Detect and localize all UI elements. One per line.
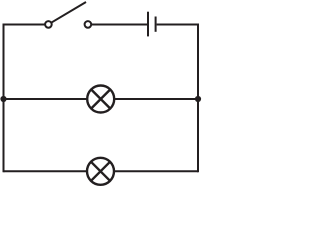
- battery B1: [148, 12, 156, 37]
- wire bottom left: [4, 170, 88, 172]
- wire battery to top-right corner: [157, 24, 198, 26]
- lamp L1: [87, 86, 114, 113]
- wire right vertical: [197, 24, 199, 173]
- switch contact right: [85, 21, 92, 28]
- wire bottom right: [114, 170, 198, 172]
- wire middle right: [114, 98, 198, 100]
- wire top-left segment: [4, 24, 46, 26]
- node right junction: [195, 96, 201, 102]
- node left junction: [0, 96, 6, 102]
- switch S1: [45, 2, 91, 28]
- wire switch to battery: [91, 24, 147, 26]
- wire left vertical: [3, 24, 5, 173]
- switch blade: [51, 2, 86, 23]
- battery short plate: [155, 17, 157, 32]
- battery long plate: [147, 12, 149, 37]
- lamp L2: [87, 158, 114, 185]
- wire middle left: [4, 98, 88, 100]
- switch contact left: [45, 21, 52, 28]
